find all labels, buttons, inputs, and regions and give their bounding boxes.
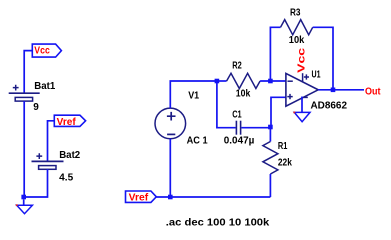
svg-text:0.047µ: 0.047µ [224, 136, 255, 147]
junction node C (C1 / R1 / U1 +in) [268, 125, 273, 130]
junction battery ground node [21, 195, 26, 200]
wire Bat1 - terminal to ground junction [23, 101, 25, 197]
junction node B (R2 / R3 / U1 -in) [268, 79, 273, 84]
wire Bat2 - terminal to ground junction [24, 169, 48, 197]
svg-text:10k: 10k [236, 88, 251, 99]
net flag Vref (battery circuit) [54, 115, 85, 128]
battery Bat2 [32, 153, 64, 169]
svg-text:Vcc: Vcc [297, 47, 308, 73]
op-amp U1 [286, 73, 318, 106]
svg-text:Out: Out [365, 87, 381, 98]
ground (op-amp V- pin) [293, 112, 310, 122]
wire node A to R2 [217, 80, 227, 82]
wire C1 right plate to node C [241, 127, 270, 129]
wire node A to C1 left plate [217, 81, 236, 128]
svg-text:R1: R1 [278, 141, 288, 152]
svg-text:AD8662: AD8662 [311, 100, 348, 111]
svg-text:AC 1: AC 1 [187, 136, 208, 147]
wire V1 top to node A [170, 81, 217, 108]
svg-text:R2: R2 [232, 61, 242, 72]
svg-text:Bat1: Bat1 [34, 81, 55, 92]
svg-text:9: 9 [33, 102, 39, 113]
wire Vref flag to Bat2 + terminal [48, 121, 55, 162]
wire R3 to output node [313, 27, 333, 90]
svg-text:U1: U1 [312, 69, 321, 80]
voltage source V1 [155, 108, 186, 139]
wire R1 to Vref rail [269, 174, 271, 197]
wire U1 output to Out [318, 89, 364, 91]
net flag Vcc (battery circuit) [32, 44, 61, 57]
svg-text:10k: 10k [289, 35, 305, 46]
svg-text:R3: R3 [290, 7, 301, 18]
svg-text:Vcc: Vcc [34, 45, 50, 56]
net flag Vref (signal rail) [126, 191, 157, 203]
svg-text:.ac dec 100 10 100k: .ac dec 100 10 100k [166, 217, 270, 228]
svg-text:22k: 22k [278, 158, 292, 169]
ground (battery circuit) [16, 199, 33, 213]
svg-text:4.5: 4.5 [59, 172, 73, 183]
wire Vcc flag to Bat1 + terminal [24, 51, 32, 93]
capacitor C1 [236, 121, 240, 135]
wire node B up to R3 [270, 27, 280, 81]
resistor R2 [227, 73, 261, 88]
svg-text:Bat2: Bat2 [59, 150, 80, 161]
junction node A (V1 / R2 / C1) [215, 79, 220, 84]
resistor R1 [263, 142, 278, 175]
wire U1 V- pin to ground [301, 97, 303, 113]
junction V1 bottom on rail [168, 195, 173, 200]
junction output node (U1 out / R3 / Out) [331, 88, 336, 93]
wire node C to R1 [269, 127, 271, 142]
wire V1 bottom to rail [169, 139, 171, 197]
wire R2 to node B and U1 inverting input [260, 80, 286, 82]
svg-text:Vref: Vref [57, 117, 77, 128]
wire node C to U1 non-inverting input [271, 97, 286, 127]
wire Vref rail (flag to V1 to R1) [156, 196, 270, 198]
svg-text:C1: C1 [232, 110, 242, 121]
resistor R3 [281, 20, 313, 35]
battery Bat1 [9, 85, 40, 101]
svg-text:V1: V1 [188, 90, 199, 101]
svg-text:Vref: Vref [129, 192, 149, 203]
